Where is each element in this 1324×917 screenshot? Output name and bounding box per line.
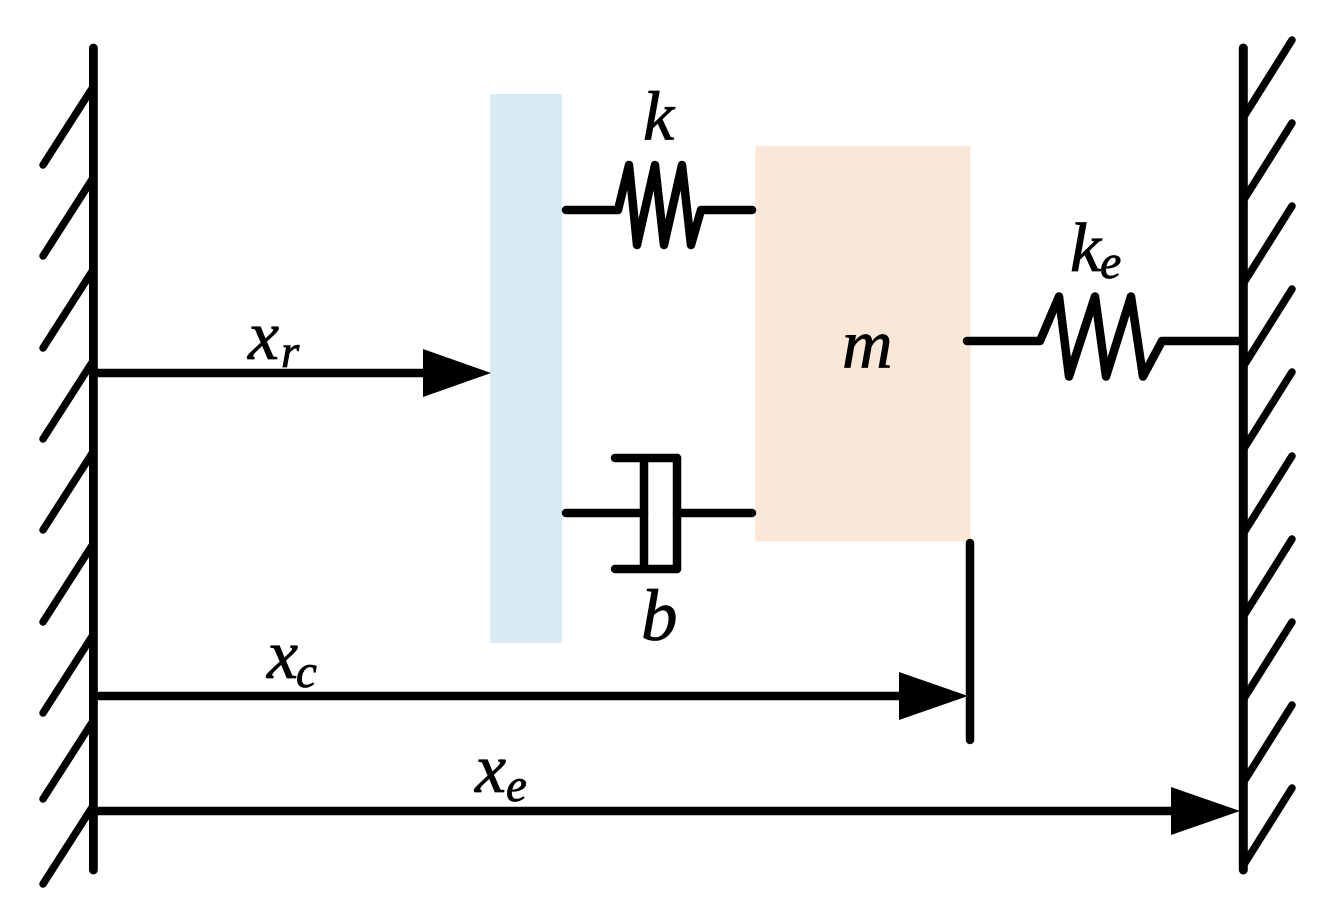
svg-text:x: x: [474, 731, 506, 808]
svg-text:m: m: [842, 307, 893, 384]
svg-text:e: e: [1100, 236, 1121, 289]
svg-text:e: e: [506, 760, 527, 812]
svg-text:b: b: [641, 575, 678, 656]
svg-text:r: r: [281, 326, 300, 378]
svg-text:x: x: [247, 298, 279, 375]
svg-text:x: x: [266, 617, 298, 694]
svg-text:k: k: [643, 79, 676, 156]
svg-text:c: c: [296, 646, 317, 698]
svg-text:k: k: [1070, 210, 1103, 287]
